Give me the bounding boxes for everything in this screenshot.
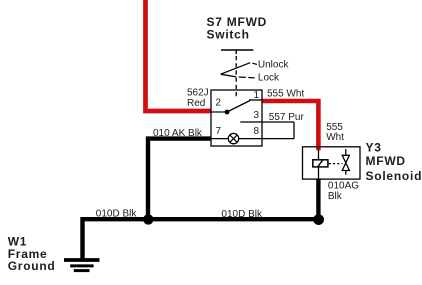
junction node at 010 AK / 010D: [143, 214, 153, 224]
label 555 Wht (solenoid side): [326, 122, 344, 143]
switch S7 actuator T-bar: [221, 50, 253, 54]
switch S7 Unlock position lever: [221, 63, 257, 74]
pin number 2: [216, 98, 222, 109]
svg-text:Lock: Lock: [258, 72, 280, 83]
svg-text:010D Blk: 010D Blk: [221, 209, 263, 220]
label 555 Wht (switch side): [267, 89, 304, 100]
pin number 1: [254, 90, 260, 101]
label 010 AK Blk: [153, 128, 203, 139]
svg-text:557 Pur: 557 Pur: [269, 112, 305, 123]
pin number 3: [254, 110, 260, 121]
ground W1 frame ground symbol: [64, 260, 100, 271]
switch S7 Lock position mark: [221, 74, 255, 78]
label 562J Red: [187, 88, 209, 110]
solenoid Y3 valve symbol: [342, 149, 349, 175]
switch S7 body: [211, 90, 262, 146]
svg-text:Blk: Blk: [328, 191, 343, 202]
wire 010 AK Blk from pin 7 down to ground bus: [148, 139, 211, 220]
svg-text:1: 1: [254, 90, 260, 101]
svg-text:Solenoid: Solenoid: [366, 169, 422, 183]
svg-text:010 AK Blk: 010 AK Blk: [153, 128, 203, 139]
label 010AG Blk: [328, 180, 359, 202]
switch S7 contact blade with pivot dot: [225, 101, 250, 115]
svg-text:Red: Red: [187, 98, 205, 109]
svg-text:Wht: Wht: [326, 132, 344, 143]
svg-text:Unlock: Unlock: [258, 60, 290, 71]
solenoid Y3 coil: [313, 160, 328, 167]
switch S7 pin 2 stub: [211, 111, 227, 113]
solenoid Y3 dashed link to valve: [329, 163, 343, 165]
label W1 Frame Ground: [8, 235, 56, 273]
label Lock: [258, 72, 280, 83]
wire 010D Blk ground bus: [83, 219, 319, 258]
wire 557 Pur vertical return: [293, 122, 295, 139]
svg-text:MFWD: MFWD: [366, 154, 406, 168]
pin number 7: [216, 126, 222, 137]
svg-text:8: 8: [254, 126, 260, 137]
lamp inside switch S7: [228, 133, 238, 143]
svg-text:010D Blk: 010D Blk: [96, 208, 138, 219]
solenoid Y3 body: [303, 147, 361, 179]
wire 557 Pur from pin 3: [240, 121, 294, 123]
label 010D Blk (left): [96, 208, 138, 219]
svg-text:Y3: Y3: [366, 141, 382, 155]
svg-text:7: 7: [216, 126, 222, 137]
svg-text:562J: 562J: [187, 88, 209, 99]
switch S7 actuator dashed link: [235, 56, 237, 98]
switch S7 pin 1 stub: [249, 99, 262, 101]
label Unlock: [258, 60, 290, 71]
svg-text:555 Wht: 555 Wht: [267, 89, 304, 100]
label S7 MFWD Switch: [207, 15, 268, 42]
wire 010AG Blk solenoid to ground bus: [316, 179, 320, 219]
label Y3 MFWD Solenoid: [366, 141, 422, 184]
junction node at solenoid / 010D: [313, 214, 324, 225]
wire 562J Red vertical+horizontal to switch pin 2: [146, 0, 212, 111]
svg-text:Ground: Ground: [8, 259, 56, 273]
svg-text:2: 2: [216, 98, 222, 109]
svg-text:3: 3: [254, 110, 260, 121]
solenoid Y3 internal lead: [318, 150, 320, 180]
wire 555 Wht from switch pin 1 to solenoid: [262, 101, 318, 150]
pin number 8: [254, 126, 260, 137]
svg-text:Switch: Switch: [207, 28, 250, 42]
label 010D Blk (right): [221, 209, 263, 220]
svg-text:010AG: 010AG: [328, 180, 359, 191]
wire pin 8 to 557 return: [211, 138, 294, 140]
label 557 Pur: [269, 112, 305, 123]
